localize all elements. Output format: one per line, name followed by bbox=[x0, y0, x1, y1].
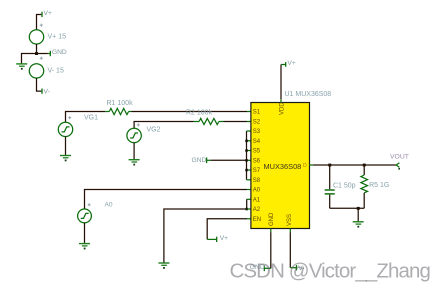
wire GND pin down bbox=[270, 232, 272, 268]
svg-text:V- 15: V- 15 bbox=[48, 67, 64, 74]
junction ground tap bbox=[357, 207, 360, 210]
ground (output RC) bbox=[353, 222, 364, 228]
node V- (bottom port of supply) bbox=[37, 78, 50, 95]
node GND (bottom port) bbox=[250, 264, 271, 271]
pin stub GND bbox=[270, 229, 272, 233]
svg-text:A0: A0 bbox=[253, 188, 261, 194]
wire bottom node C1-R5 bbox=[330, 207, 365, 209]
svg-text:S2: S2 bbox=[253, 120, 261, 126]
ground (A2) bbox=[158, 263, 169, 269]
svg-text:S7: S7 bbox=[253, 168, 261, 174]
svg-text:A1: A1 bbox=[253, 198, 261, 204]
svg-text:S5: S5 bbox=[253, 149, 261, 155]
svg-text:S3: S3 bbox=[253, 129, 261, 135]
svg-text:V+: V+ bbox=[220, 235, 228, 242]
pin stub S7 bbox=[247, 169, 251, 171]
svg-text:S1: S1 bbox=[253, 110, 261, 116]
generator VG1 bbox=[58, 114, 98, 136]
wire D to VOUT bbox=[313, 164, 396, 166]
svg-text:VSS: VSS bbox=[287, 214, 293, 226]
wire VG2 to ground bbox=[133, 143, 135, 160]
resistor R2 100k bbox=[186, 109, 224, 124]
wire VDD up bbox=[280, 65, 282, 100]
node V- (bottom port) bbox=[290, 265, 304, 272]
junction S7 bbox=[245, 169, 248, 172]
svg-text:R2 100k: R2 100k bbox=[186, 109, 213, 116]
ground (supply) bbox=[16, 64, 27, 70]
wire R2 to U1 pin S2 bbox=[224, 121, 248, 123]
svg-text:VG2: VG2 bbox=[147, 126, 161, 133]
svg-text:V+: V+ bbox=[44, 10, 52, 17]
pin stub S3 bbox=[247, 130, 251, 132]
svg-text:EN: EN bbox=[253, 217, 261, 223]
junction supply mid bbox=[35, 52, 38, 55]
wire bracket A1-A2 bbox=[246, 199, 248, 209]
generator A0 bbox=[78, 202, 113, 223]
node GND (chip left port) bbox=[192, 157, 212, 164]
svg-text:MUX36S08: MUX36S08 bbox=[264, 162, 302, 171]
pin stub A2 bbox=[247, 208, 251, 210]
svg-text:R1 100k: R1 100k bbox=[107, 100, 134, 107]
pin stub VSS bbox=[289, 229, 291, 233]
svg-text:CSDN @Victor__Zhang: CSDN @Victor__Zhang bbox=[230, 260, 431, 283]
pin stub A1 bbox=[247, 198, 251, 200]
pin stub S4 bbox=[247, 140, 251, 142]
svg-text:VG1: VG1 bbox=[84, 114, 98, 121]
ground (A0) bbox=[79, 244, 90, 250]
pin stub D bbox=[310, 164, 314, 166]
svg-text:V+: V+ bbox=[287, 60, 295, 67]
pin stub VDD bbox=[280, 99, 282, 102]
resistor R5 1G bbox=[361, 165, 389, 208]
wire junction to ground bbox=[22, 54, 37, 64]
svg-text:GND: GND bbox=[192, 157, 207, 164]
resistor R1 100k bbox=[105, 100, 133, 115]
voltage source V1 V+ 15 bbox=[29, 24, 66, 44]
wire VG1 to R1 bbox=[66, 112, 106, 123]
svg-text:A0: A0 bbox=[105, 202, 113, 209]
wire down to ground bbox=[357, 208, 359, 221]
ground (VG2) bbox=[129, 160, 140, 166]
ground (VG1) bbox=[60, 156, 71, 162]
pin stub S5 bbox=[247, 150, 251, 152]
junction S5 bbox=[245, 149, 248, 152]
node V+ (top-left port) bbox=[37, 10, 52, 30]
svg-text:S6: S6 bbox=[253, 159, 261, 165]
wire A0 to ground bbox=[84, 223, 86, 243]
node GND (supply port) bbox=[37, 49, 67, 56]
op-amp U1 MUX36S08 body bbox=[251, 103, 310, 229]
svg-text:D: D bbox=[303, 163, 307, 169]
svg-text:U1 MUX36S08: U1 MUX36S08 bbox=[285, 91, 332, 98]
wire R1 to U1 pin S1 bbox=[132, 111, 248, 113]
svg-text:S4: S4 bbox=[253, 139, 261, 145]
svg-text:VDD: VDD bbox=[280, 102, 286, 115]
wire GND port to bracket bbox=[211, 159, 247, 161]
node VOUT (output port marker) bbox=[390, 154, 409, 170]
wire A2 to ground bbox=[164, 209, 247, 263]
wire VG1 to ground bbox=[65, 137, 67, 156]
pin stub S8 bbox=[247, 179, 251, 181]
wire EN to V+ port bbox=[207, 219, 247, 240]
svg-text:VOUT: VOUT bbox=[390, 154, 409, 161]
wire A0 source to U1 pin A0 bbox=[85, 190, 248, 210]
wire VG2 to R2 bbox=[134, 122, 193, 129]
node V+ (EN port) bbox=[207, 235, 228, 242]
svg-text:GND: GND bbox=[269, 212, 275, 226]
junction C1 tap bbox=[328, 164, 331, 167]
svg-text:A2: A2 bbox=[253, 207, 261, 213]
junction A2 bbox=[246, 208, 249, 211]
wire V1 bottom to junction bbox=[36, 44, 38, 53]
wire VSS pin down bbox=[289, 232, 291, 268]
node V+ (VDD port) bbox=[281, 60, 296, 67]
wire bracket S3-S8 bbox=[246, 131, 248, 180]
svg-text:S8: S8 bbox=[253, 178, 261, 184]
pin stub S6 bbox=[247, 159, 251, 161]
pin stub EN bbox=[247, 218, 251, 220]
svg-text:GND: GND bbox=[52, 49, 67, 56]
svg-text:R5 1G: R5 1G bbox=[369, 182, 389, 189]
capacitor C1 50p bbox=[325, 165, 356, 208]
junction R5 tap bbox=[363, 164, 366, 167]
svg-text:C1 50p: C1 50p bbox=[333, 182, 356, 189]
svg-text:V-: V- bbox=[44, 88, 50, 95]
voltage source V2 V- 15 bbox=[29, 57, 64, 78]
junction S4 bbox=[245, 140, 248, 143]
svg-text:V+ 15: V+ 15 bbox=[48, 33, 67, 40]
generator VG2 bbox=[127, 123, 161, 142]
junction S6 bbox=[245, 159, 248, 162]
